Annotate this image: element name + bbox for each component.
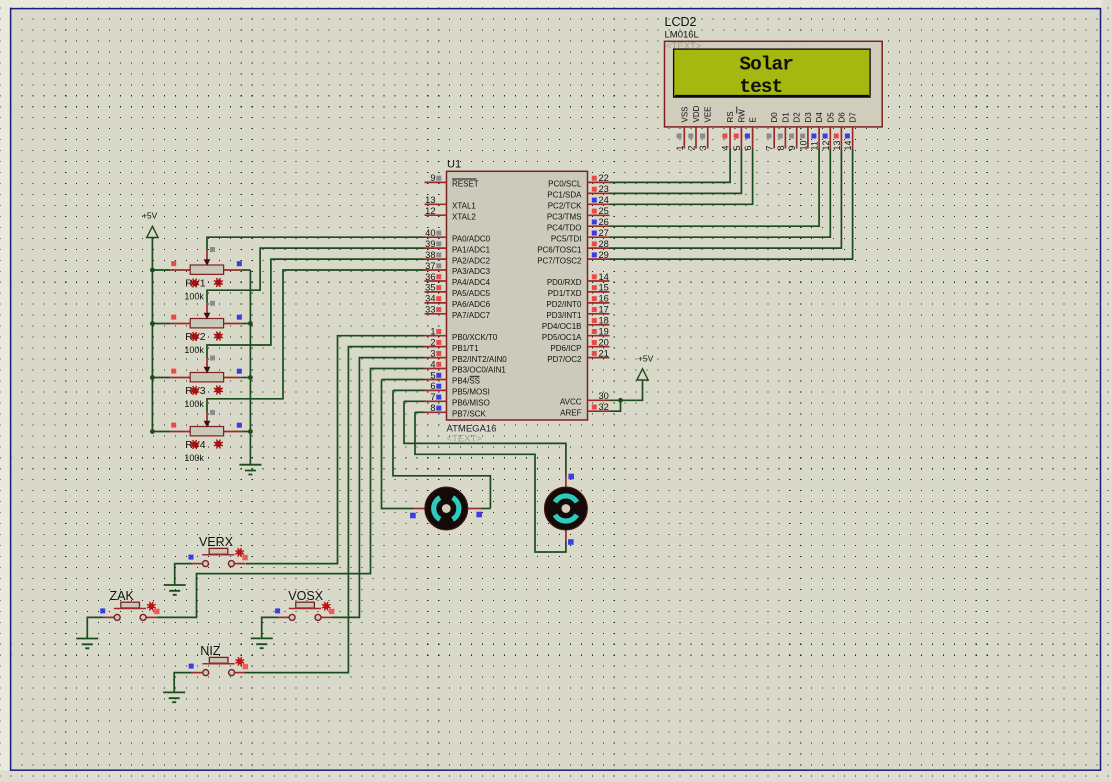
wire	[152, 377, 170, 379]
svg-text:PA5/ADC5: PA5/ADC5	[452, 289, 491, 298]
wire	[207, 270, 425, 413]
svg-text:38: 38	[425, 250, 435, 260]
LCD pin 2 VDD	[687, 105, 702, 150]
svg-text:13: 13	[832, 140, 842, 150]
LCD pin 4 RS	[721, 111, 736, 150]
svg-text:7: 7	[765, 145, 775, 150]
potentiometer RV4 100k	[170, 410, 242, 463]
svg-text:100k: 100k	[184, 292, 204, 302]
push button ZAK	[100, 589, 159, 621]
wire	[241, 431, 250, 433]
svg-text:PB0/XCK/T0: PB0/XCK/T0	[452, 333, 498, 342]
wire	[152, 323, 170, 325]
svg-text:PB1/T1: PB1/T1	[452, 344, 479, 353]
svg-text:ZAK: ZAK	[110, 589, 135, 603]
svg-text:8: 8	[430, 403, 435, 413]
svg-text:LCD2: LCD2	[665, 15, 697, 29]
svg-text:14: 14	[599, 272, 609, 282]
svg-text:32: 32	[599, 402, 609, 412]
svg-text:4: 4	[721, 145, 731, 150]
svg-text:2: 2	[687, 145, 697, 150]
wire	[610, 400, 621, 411]
svg-text:PA0/ADC0: PA0/ADC0	[452, 234, 491, 243]
wire	[152, 269, 170, 271]
svg-text:PA1/ADC1: PA1/ADC1	[452, 245, 491, 254]
pin 23 PC1/SDA	[547, 184, 609, 199]
svg-text:5: 5	[430, 370, 435, 380]
pin 5 PB4/SS	[425, 370, 481, 385]
wire	[382, 379, 425, 381]
wire	[610, 149, 842, 249]
LCD pin 6 E	[743, 117, 758, 150]
svg-text:PC0/SCL: PC0/SCL	[548, 180, 582, 189]
svg-text:6: 6	[430, 381, 435, 391]
pin 3 PB2/INT2/AIN0	[425, 348, 508, 363]
wire	[87, 617, 103, 638]
wire	[207, 259, 425, 358]
pin 12 XTAL2	[425, 206, 477, 221]
svg-text:18: 18	[599, 316, 609, 326]
junction node	[150, 321, 155, 326]
svg-text:PB5/MOSI: PB5/MOSI	[452, 388, 490, 397]
LCD LM016L body	[665, 41, 883, 127]
svg-text:100k: 100k	[184, 345, 204, 355]
svg-text:D5: D5	[826, 112, 835, 123]
svg-text:PD6/ICP: PD6/ICP	[550, 344, 581, 353]
pin 2 PB1/T1	[425, 337, 480, 352]
pin 36 PA4/ADC4	[425, 272, 491, 287]
svg-text:XTAL1: XTAL1	[452, 202, 476, 211]
pin 24 PC2/TCK	[548, 195, 610, 210]
svg-text:PD7/OC2: PD7/OC2	[547, 355, 582, 364]
pin 4 PB3/OC0/AIN1	[425, 359, 507, 374]
svg-text:+5V: +5V	[638, 353, 654, 363]
wire	[241, 377, 250, 379]
svg-text:27: 27	[599, 228, 609, 238]
pin 20 PD6/ICP	[550, 338, 609, 353]
svg-text:PB3/OC0/AIN1: PB3/OC0/AIN1	[452, 366, 506, 375]
wire	[175, 564, 192, 585]
svg-text:23: 23	[599, 184, 609, 194]
push button VERX	[189, 535, 248, 567]
pin 1 PB0/XCK/T0	[425, 327, 498, 342]
pin 25 PC3/TMS	[547, 206, 610, 221]
potentiometer RV1 100k	[170, 247, 242, 302]
svg-text:PC1/SDA: PC1/SDA	[547, 191, 582, 200]
svg-text:D6: D6	[837, 112, 846, 123]
pin 9 RESET	[425, 173, 479, 188]
wire	[393, 389, 425, 391]
svg-text:PA2/ADC2: PA2/ADC2	[452, 256, 491, 265]
push button VOSX	[275, 589, 334, 621]
pin 40 PA0/ADC0	[425, 228, 491, 243]
svg-text:PD2/INT0: PD2/INT0	[546, 300, 582, 309]
pin 34 PA6/ADC6	[425, 294, 491, 309]
pin 17 PD3/INT1	[546, 305, 609, 320]
svg-text:PC4/TDO: PC4/TDO	[547, 223, 582, 232]
LCD pin 12 D5	[821, 112, 836, 151]
svg-text:2: 2	[430, 337, 435, 347]
svg-text:PC2/TCK: PC2/TCK	[548, 202, 582, 211]
svg-text:PB7/SCK: PB7/SCK	[452, 410, 486, 419]
pin 38 PA2/ADC2	[425, 250, 491, 265]
svg-text:29: 29	[599, 250, 609, 260]
svg-text:6: 6	[743, 145, 753, 150]
svg-text:36: 36	[425, 272, 435, 282]
junction node	[150, 268, 155, 273]
svg-text:20: 20	[599, 338, 609, 348]
wire	[481, 508, 490, 510]
svg-text:PD1/TXD: PD1/TXD	[548, 289, 582, 298]
svg-text:17: 17	[599, 305, 609, 315]
svg-text:E: E	[749, 117, 758, 122]
wire	[610, 149, 831, 238]
junction node	[248, 375, 253, 380]
pin 28 PC6/TOSC1	[537, 239, 609, 254]
wire	[404, 400, 425, 402]
svg-text:3: 3	[430, 348, 435, 358]
wire	[245, 347, 425, 673]
junction node	[150, 375, 155, 380]
wire	[415, 411, 425, 413]
wire	[245, 336, 424, 564]
pin 29 PC7/TOSC2	[537, 250, 609, 265]
wire	[610, 149, 853, 260]
svg-text:12: 12	[425, 206, 435, 216]
wire	[174, 673, 192, 693]
LCD pin 1 VSS	[675, 106, 690, 150]
wire	[151, 238, 153, 432]
svg-text:D7: D7	[849, 112, 858, 123]
svg-text:VERX: VERX	[199, 535, 234, 549]
svg-text:D4: D4	[815, 112, 824, 123]
ground	[239, 465, 261, 475]
svg-text:26: 26	[599, 217, 609, 227]
svg-text:U1: U1	[447, 159, 461, 171]
LCD pin 7 D0	[765, 112, 780, 151]
svg-text:PA7/ADC7: PA7/ADC7	[452, 311, 491, 320]
wire	[610, 149, 742, 194]
svg-text:12: 12	[821, 140, 831, 150]
svg-text:AVCC: AVCC	[560, 398, 582, 407]
ground	[163, 692, 185, 702]
wire	[241, 323, 250, 325]
svg-text:10: 10	[798, 140, 808, 150]
pin 35 PA5/ADC5	[425, 283, 491, 298]
svg-text:RESET: RESET	[452, 180, 479, 189]
svg-text:D1: D1	[781, 112, 790, 123]
wire	[207, 237, 425, 249]
pin 32 AREF	[560, 402, 609, 417]
potentiometer RV3 100k	[170, 356, 242, 410]
svg-text:4: 4	[430, 359, 435, 369]
op-amp U1 ATMEGA16 microcontroller body	[447, 171, 588, 420]
svg-text:11: 11	[810, 141, 820, 150]
svg-text:D2: D2	[793, 112, 802, 123]
svg-text:PA4/ADC4: PA4/ADC4	[452, 278, 491, 287]
svg-text:15: 15	[599, 283, 609, 293]
svg-text:1: 1	[430, 327, 435, 337]
svg-text:RW: RW	[737, 109, 746, 123]
svg-text:VEE: VEE	[704, 106, 713, 122]
svg-text:30: 30	[599, 391, 609, 401]
junction node	[248, 429, 253, 434]
ground	[164, 585, 186, 595]
wire	[249, 270, 251, 465]
svg-text:VSS: VSS	[680, 106, 689, 122]
svg-text:VDD: VDD	[692, 105, 701, 122]
LCD pin 13 D6	[832, 112, 847, 151]
pin 6 PB5/MOSI	[425, 381, 490, 396]
svg-text:XTAL2: XTAL2	[452, 212, 476, 221]
pin 8 PB7/SCK	[425, 403, 487, 418]
svg-text:PA6/ADC6: PA6/ADC6	[452, 300, 491, 309]
motor M2 (right)	[545, 474, 588, 545]
svg-text:VOSX: VOSX	[288, 589, 323, 603]
pin 37 PA3/ADC3	[425, 261, 491, 276]
svg-text:3: 3	[698, 145, 708, 150]
svg-text:37: 37	[425, 261, 435, 271]
svg-text:PD0/RXD: PD0/RXD	[547, 278, 582, 287]
pin 30 AVCC	[560, 391, 610, 406]
svg-text:39: 39	[425, 239, 435, 249]
svg-text:8: 8	[776, 145, 786, 150]
svg-text:NIZ: NIZ	[200, 644, 221, 658]
svg-text:RS: RS	[726, 111, 735, 122]
junction node	[150, 429, 155, 434]
wire	[262, 617, 278, 638]
svg-text:35: 35	[425, 283, 435, 293]
LCD pin 10 D3	[798, 112, 813, 151]
junction node AVCC/AREF	[618, 398, 623, 403]
svg-text:PC5/TDI: PC5/TDI	[551, 234, 582, 243]
svg-text:Solar: Solar	[739, 53, 793, 75]
svg-text:PC6/TOSC1: PC6/TOSC1	[537, 245, 582, 254]
wire	[404, 401, 566, 475]
svg-text:PC3/TMS: PC3/TMS	[547, 213, 582, 222]
svg-text:D0: D0	[770, 112, 779, 123]
LCD pin 8 D1	[776, 112, 791, 151]
LCD pin 9 D2	[787, 112, 802, 151]
svg-text:PB6/MISO: PB6/MISO	[452, 399, 490, 408]
svg-text:5: 5	[732, 145, 742, 150]
motor M1 (left)	[410, 487, 482, 530]
pin 33 PA7/ADC7	[425, 305, 491, 320]
pin 26 PC4/TDO	[547, 217, 610, 232]
svg-text:1: 1	[675, 145, 685, 150]
svg-text:PB4/SS: PB4/SS	[452, 377, 480, 386]
svg-text:PD3/INT1: PD3/INT1	[546, 311, 582, 320]
svg-text:9: 9	[787, 145, 797, 150]
wire	[332, 358, 425, 618]
push button NIZ	[189, 644, 248, 676]
svg-text:22: 22	[599, 173, 609, 183]
svg-text:25: 25	[599, 206, 609, 216]
ground	[251, 638, 273, 648]
pin 39 PA1/ADC1	[425, 239, 491, 254]
svg-text:PD5/OC1A: PD5/OC1A	[542, 333, 582, 342]
wire	[152, 431, 170, 433]
pin 21 PD7/OC2	[547, 348, 609, 363]
wire	[610, 149, 731, 183]
svg-text:LM016L: LM016L	[665, 30, 699, 41]
svg-text:19: 19	[599, 327, 609, 337]
svg-text:28: 28	[599, 239, 609, 249]
wire	[393, 390, 490, 508]
wire	[241, 269, 250, 271]
svg-text:PA3/ADC3: PA3/ADC3	[452, 267, 491, 276]
wire	[157, 369, 425, 618]
svg-text:14: 14	[843, 140, 853, 150]
pin 18 PD4/OC1B	[542, 316, 610, 331]
svg-text:PC7/TOSC2: PC7/TOSC2	[537, 256, 582, 265]
pin 19 PD5/OC1A	[542, 327, 610, 342]
pin 15 PD1/TXD	[548, 283, 610, 298]
wire	[610, 149, 820, 227]
LCD pin 14 D7	[843, 112, 858, 151]
ground	[76, 639, 98, 649]
wire	[610, 149, 753, 205]
LCD pin 3 VEE	[698, 106, 713, 150]
pin 27 PC5/TDI	[551, 228, 610, 243]
+5V power symbol	[637, 353, 654, 380]
svg-text:D3: D3	[804, 112, 813, 123]
pin 14 PD0/RXD	[547, 272, 610, 287]
pin 16 PD2/INT0	[546, 294, 609, 309]
LCD green screen	[674, 49, 871, 97]
svg-text:34: 34	[425, 294, 435, 304]
pin 13 XTAL1	[425, 195, 477, 210]
svg-text:13: 13	[425, 195, 435, 205]
wire	[610, 380, 643, 400]
svg-text:AREF: AREF	[560, 408, 581, 417]
svg-text:33: 33	[425, 305, 435, 315]
LCD pin 11 D4	[810, 112, 825, 151]
potentiometer RV2 100k	[170, 301, 242, 355]
+5V power symbol	[142, 211, 158, 238]
svg-text:PB2/INT2/AIN0: PB2/INT2/AIN0	[452, 355, 507, 364]
wire	[415, 412, 566, 552]
svg-text:100k: 100k	[184, 453, 204, 463]
svg-text:test: test	[739, 76, 782, 98]
wire	[382, 380, 414, 509]
pin 7 PB6/MISO	[425, 392, 490, 407]
svg-text:+5V: +5V	[142, 211, 158, 221]
svg-text:21: 21	[599, 348, 609, 358]
svg-text:7: 7	[430, 392, 435, 402]
junction node	[248, 321, 253, 326]
svg-text:9: 9	[430, 173, 435, 183]
wire	[207, 248, 425, 303]
svg-text:100k: 100k	[184, 399, 204, 409]
pin 22 PC0/SCL	[548, 173, 609, 188]
LCD pin 5 RW	[732, 107, 747, 151]
svg-text:16: 16	[599, 294, 609, 304]
svg-text:PD4/OC1B: PD4/OC1B	[542, 322, 582, 331]
svg-text:40: 40	[425, 228, 435, 238]
svg-text:24: 24	[599, 195, 609, 205]
